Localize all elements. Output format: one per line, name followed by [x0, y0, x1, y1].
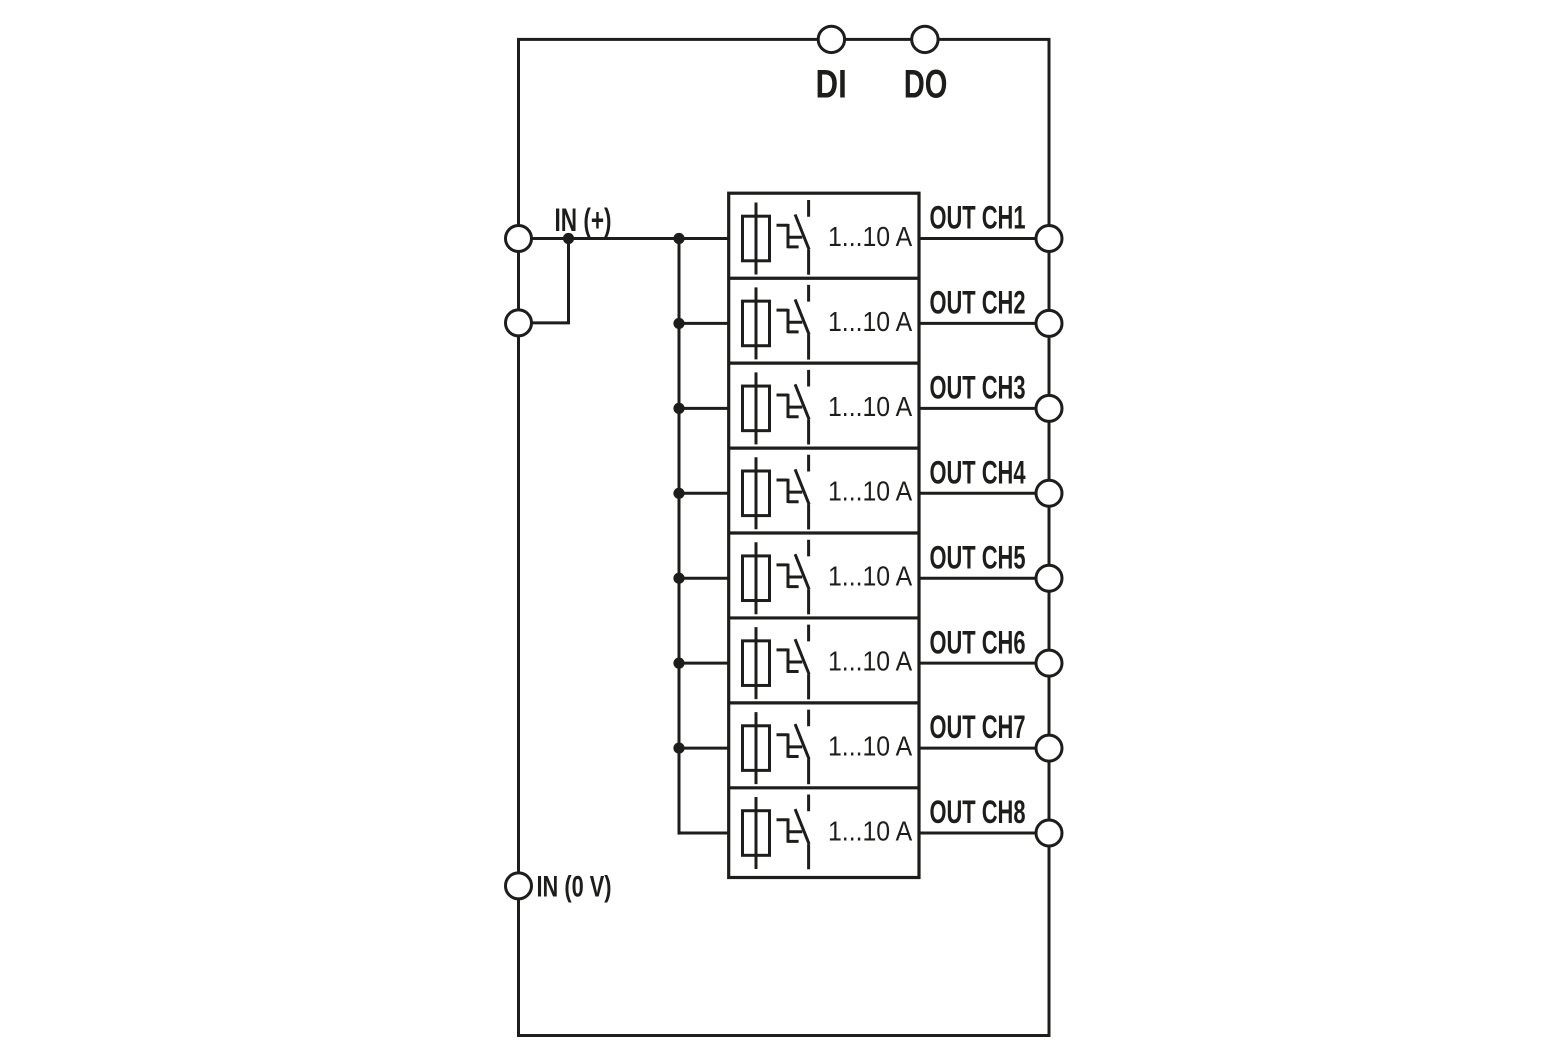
terminal: OUT CH2 — [1036, 310, 1062, 336]
switch S7 trip mechanism (channel 7) — [777, 733, 803, 757]
wire: channel 4 output to OUT CH4 terminal — [919, 492, 1049, 495]
wire: bus tap to channel 6 — [679, 662, 729, 665]
channel divider above channel 7 — [729, 701, 919, 704]
wire: IN (+) feed to channel block row 1 — [519, 237, 729, 240]
terminal: DI — [818, 26, 844, 52]
fuse F7 (channel 7) — [743, 712, 770, 784]
wire: channel 3 output to OUT CH3 terminal — [919, 407, 1049, 410]
svg-text:1...10 A: 1...10 A — [828, 391, 912, 422]
switch S3 trip mechanism (channel 3) — [777, 394, 803, 418]
svg-text:DO: DO — [904, 62, 948, 106]
wire: channel 6 output to OUT CH6 terminal — [919, 662, 1049, 665]
wire: channel 5 output to OUT CH5 terminal — [919, 577, 1049, 580]
fuse F4 (channel 4) — [743, 457, 770, 529]
wire: channel 8 output to OUT CH8 terminal — [919, 832, 1049, 835]
switch S4 trip mechanism (channel 4) — [777, 479, 803, 503]
wire: channel 7 output to OUT CH7 terminal — [919, 747, 1049, 750]
wire: + distribution bus — [678, 239, 681, 835]
switch S2 trip mechanism (channel 2) — [777, 309, 803, 333]
wire: branch down to second IN (+) terminal — [567, 239, 570, 323]
svg-text:OUT CH4: OUT CH4 — [930, 454, 1026, 490]
terminal: OUT CH4 — [1036, 480, 1062, 506]
fuse F3 (channel 3) — [743, 372, 770, 444]
wire: bus tap to channel 4 — [679, 492, 729, 495]
junction: bus node channel 1 — [673, 233, 684, 244]
svg-text:OUT CH5: OUT CH5 — [930, 539, 1026, 575]
fuse F6 (channel 6) — [743, 627, 770, 699]
svg-text:OUT CH6: OUT CH6 — [930, 624, 1026, 660]
svg-text:1...10 A: 1...10 A — [828, 476, 912, 507]
fuse F2 (channel 2) — [743, 287, 770, 359]
wire: branch across to second IN (+) terminal — [531, 321, 570, 324]
channel divider above channel 3 — [729, 362, 919, 365]
svg-text:OUT CH7: OUT CH7 — [930, 709, 1026, 745]
channel divider above channel 5 — [729, 531, 919, 534]
terminal: OUT CH3 — [1036, 395, 1062, 421]
svg-text:1...10 A: 1...10 A — [828, 221, 912, 252]
svg-text:OUT CH1: OUT CH1 — [930, 200, 1026, 236]
terminal: OUT CH5 — [1036, 565, 1062, 591]
switch S8 trip mechanism (channel 8) — [777, 818, 803, 842]
wire: channel 2 output to OUT CH2 terminal — [919, 322, 1049, 325]
junction: bus node channel 7 — [673, 742, 684, 753]
switch S6 trip mechanism (channel 6) — [777, 649, 803, 673]
junction: bus node channel 6 — [673, 658, 684, 669]
switch S2 contact blade (channel 2) — [795, 285, 809, 360]
channel divider above channel 8 — [729, 786, 919, 789]
svg-text:DI: DI — [816, 62, 847, 106]
channel divider above channel 6 — [729, 616, 919, 619]
switch S4 contact blade (channel 4) — [795, 455, 809, 530]
switch S5 contact blade (channel 5) — [795, 540, 809, 615]
wire: channel 1 output to OUT CH1 terminal — [919, 237, 1049, 240]
svg-text:1...10 A: 1...10 A — [828, 646, 912, 677]
switch S7 contact blade (channel 7) — [795, 710, 809, 785]
junction: bus node channel 3 — [673, 403, 684, 414]
wire: bus tap to channel 8 — [679, 832, 729, 835]
junction: bus node channel 2 — [673, 318, 684, 329]
fuse F5 (channel 5) — [743, 542, 770, 614]
junction: bus node channel 4 — [673, 488, 684, 499]
terminal: IN (+) lower — [506, 310, 532, 336]
terminal: IN (+) upper — [506, 226, 532, 252]
channel divider above channel 4 — [729, 446, 919, 449]
wire: bus tap to channel 5 — [679, 577, 729, 580]
junction: bus node channel 5 — [673, 573, 684, 584]
switch S1 trip mechanism (channel 1) — [777, 224, 803, 248]
svg-text:1...10 A: 1...10 A — [828, 306, 912, 337]
terminal: DO — [912, 26, 938, 52]
channel divider above channel 2 — [729, 277, 919, 280]
terminal: OUT CH6 — [1036, 650, 1062, 676]
svg-text:IN (0 V): IN (0 V) — [537, 870, 612, 903]
svg-text:1...10 A: 1...10 A — [828, 730, 912, 761]
wire: outer frame loop (top / right / bottom / left) — [519, 39, 1050, 1035]
switch S3 contact blade (channel 3) — [795, 370, 809, 445]
svg-text:OUT CH2: OUT CH2 — [930, 285, 1026, 321]
junction: IN (+) branch node — [563, 233, 574, 244]
terminal: IN (0 V) — [506, 873, 532, 899]
wire: bus tap to channel 3 — [679, 407, 729, 410]
svg-text:1...10 A: 1...10 A — [828, 561, 912, 592]
switch S1 contact blade (channel 1) — [795, 200, 809, 275]
svg-text:IN (+): IN (+) — [555, 202, 612, 238]
terminal: OUT CH7 — [1036, 735, 1062, 761]
fuse F8 (channel 8) — [743, 797, 770, 869]
svg-text:1...10 A: 1...10 A — [828, 815, 912, 846]
switch S8 contact blade (channel 8) — [795, 795, 809, 870]
terminal: OUT CH1 — [1036, 226, 1062, 252]
wire: bus tap to channel 2 — [679, 322, 729, 325]
terminal: OUT CH8 — [1036, 820, 1062, 846]
svg-text:OUT CH8: OUT CH8 — [930, 794, 1026, 830]
wire: bus tap to channel 7 — [679, 747, 729, 750]
fuse F1 (channel 1) — [743, 203, 770, 275]
switch S6 contact blade (channel 6) — [795, 625, 809, 700]
svg-text:OUT CH3: OUT CH3 — [930, 369, 1026, 405]
channel block outline — [729, 193, 919, 877]
switch S5 trip mechanism (channel 5) — [777, 564, 803, 588]
